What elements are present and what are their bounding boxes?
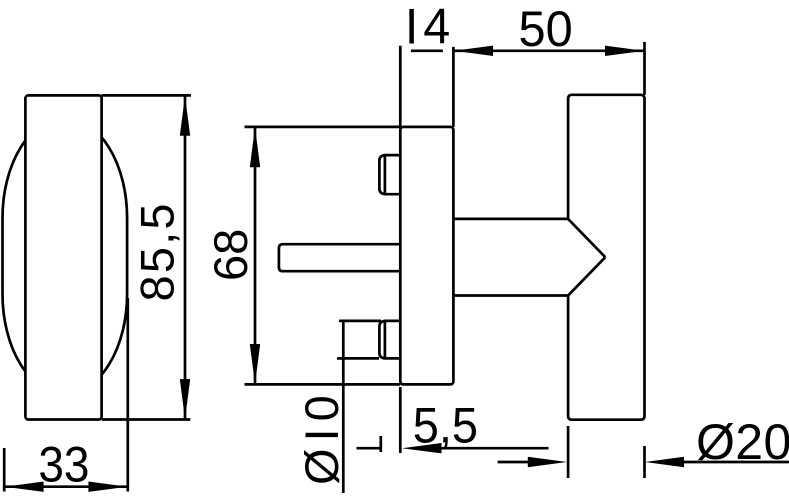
extension line bottom (85,5) [102, 418, 191, 421]
neck top edge [453, 218, 568, 221]
screw boss top inner edge [384, 155, 387, 194]
extension line left (Ø20) [567, 426, 570, 478]
extension line bottom (Ø10) [337, 357, 379, 360]
extension line right (Ø20) [643, 446, 646, 478]
neck bottom edge [453, 294, 568, 297]
dimension line 68 [254, 127, 257, 385]
extension line top (Ø10) [339, 320, 381, 323]
arrowhead 68 up [250, 127, 260, 167]
extension line top (68) [245, 126, 401, 129]
neck cone upper [568, 219, 605, 257]
dimension line 5,5 left tail [357, 447, 381, 450]
svg-text:85,5: 85,5 [131, 201, 184, 301]
knob face rectangle (front view) [25, 95, 101, 419]
arrowhead O20 left (points right) [528, 457, 567, 467]
dimension line Ø20 left tail [498, 461, 529, 464]
dimension line 5,5 right tail [440, 447, 549, 450]
arrowhead O20 right (points left) [645, 457, 684, 467]
arrowhead 50 right [605, 46, 644, 56]
screw boss bottom [379, 321, 400, 359]
arrowhead 68 down [250, 344, 260, 384]
dimension line Ø10 [342, 321, 345, 493]
arrowhead 50 left [454, 46, 493, 56]
extension line top (85,5) [102, 94, 191, 97]
arrowhead 85,5 up [180, 96, 190, 136]
rose plate (side view) [400, 127, 453, 385]
arrowhead 5,5 [402, 443, 442, 453]
screw boss bottom inner edge [384, 321, 387, 358]
dimension line 50 [453, 49, 644, 52]
dimension line 33 [4, 485, 128, 488]
grip bar (side view) with gap at neck joint [568, 95, 644, 420]
svg-text:68: 68 [204, 229, 257, 281]
svg-text:33: 33 [38, 438, 89, 493]
svg-text:I4: I4 [405, 0, 455, 55]
extension line left (33) [3, 448, 6, 492]
knob grip capsule (front view, behind face rect) [3, 118, 128, 394]
screw boss top [379, 155, 400, 194]
extension line left (14) [399, 46, 402, 127]
arrowhead 85,5 down [180, 379, 190, 419]
spindle bar [279, 244, 400, 271]
dimension line 14 [411, 49, 443, 52]
extension line right (50) [643, 42, 646, 95]
dimension line Ø20 right tail [683, 461, 789, 464]
extension line right (33) [126, 298, 129, 492]
arrowhead 33 left [5, 482, 44, 492]
extension line bottom (68) [245, 383, 401, 386]
extension line right (5,5) [399, 387, 402, 453]
extension line right (14) [452, 47, 455, 127]
svg-text:Ø20: Ø20 [696, 414, 789, 470]
svg-text:50: 50 [518, 2, 572, 58]
svg-text:ØI0: ØI0 [295, 388, 348, 485]
arrowhead 33 right [88, 482, 127, 492]
extension line left (5,5) [379, 436, 382, 452]
neck cone lower [568, 257, 605, 295]
dimension line 85,5 [184, 95, 187, 419]
svg-text:5,5: 5,5 [413, 398, 478, 454]
